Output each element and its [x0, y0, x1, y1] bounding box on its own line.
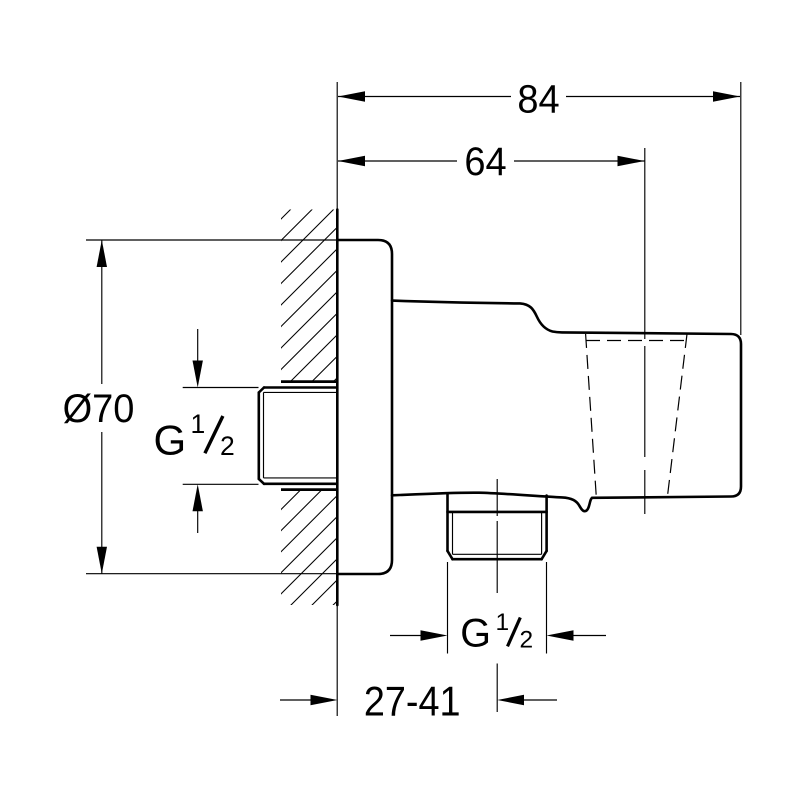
- outlet G1/2 dim left arrowhead: [421, 630, 448, 640]
- outlet G1/2 dim left line: [390, 635, 421, 637]
- svg-text:84: 84: [517, 78, 559, 122]
- dimension 64 text: [464, 140, 506, 184]
- wall line thick (wall edge): [336, 210, 339, 606]
- outlet center line: [496, 479, 498, 712]
- dimension 84 text: [517, 78, 559, 122]
- inlet G1/2 upper pointer line: [197, 329, 199, 362]
- inlet G1/2 label: [154, 409, 235, 464]
- svg-text:2: 2: [220, 431, 235, 461]
- dimension 27-41 text: [364, 679, 461, 725]
- dimension O70 text: [63, 387, 135, 431]
- dashed holder cone left: [586, 334, 597, 497]
- dimension 84 right extension line: [740, 82, 742, 335]
- holder center line (64 extension): [644, 148, 646, 514]
- svg-text:27-41: 27-41: [364, 679, 461, 725]
- svg-text:G: G: [154, 417, 187, 464]
- inlet G1/2 upper extension: [183, 387, 259, 389]
- body and holder outline: [392, 301, 741, 512]
- dimension 84 left arrowhead: [338, 91, 365, 101]
- dimension 84 line: [338, 96, 740, 98]
- wall hole top edge: [281, 380, 337, 383]
- svg-text:64: 64: [464, 140, 506, 184]
- dimension 27-41 left arrowhead: [311, 695, 338, 705]
- svg-text:1: 1: [191, 409, 206, 439]
- dimension 64 left arrowhead: [338, 156, 365, 166]
- svg-text:1: 1: [496, 609, 510, 636]
- outlet G1/2 dim right line: [573, 635, 606, 637]
- outlet G1/2 dim left extension: [447, 562, 449, 654]
- dashed holder cone top: [586, 340, 687, 342]
- svg-text:2: 2: [520, 627, 534, 654]
- dimension O70 line: [101, 240, 103, 574]
- dimension O70 top arrowhead: [97, 240, 107, 267]
- outlet thread G1/2: [448, 494, 547, 560]
- wall hatch upper: [0, 180, 535, 650]
- inlet G1/2 lower extension: [183, 483, 259, 485]
- dimension 27-41 line left: [280, 699, 311, 701]
- svg-text:G: G: [460, 612, 491, 656]
- dimension 64 right arrowhead: [618, 156, 645, 166]
- wall line lower thin: [336, 605, 338, 716]
- dimension 84 right arrowhead: [713, 91, 740, 101]
- dimension 27-41 line right: [524, 699, 557, 701]
- dimension O70 extension top: [86, 239, 337, 241]
- dimension O70 bottom arrowhead: [97, 547, 107, 574]
- inlet G1/2 lower pointer line: [197, 511, 199, 533]
- dimension 64 line: [338, 160, 645, 162]
- dimension O70 extension bottom: [86, 573, 337, 575]
- inlet G1/2 lower arrowhead: [193, 484, 203, 511]
- wall hatch lower: [141, 180, 759, 650]
- svg-text:Ø70: Ø70: [63, 387, 135, 431]
- dashed holder cone right: [668, 334, 688, 496]
- outlet G1/2 dim right arrowhead: [547, 630, 574, 640]
- outlet G1/2 label: [460, 609, 533, 656]
- inlet thread G1/2: [259, 388, 337, 484]
- dimension 27-41 right arrowhead: [497, 695, 524, 705]
- outlet G1/2 dim right extension: [546, 562, 548, 654]
- inlet G1/2 upper arrowhead: [193, 361, 203, 388]
- wall line upper thin: [336, 82, 338, 210]
- escutcheon plate: [337, 240, 392, 574]
- wall hole bottom edge: [281, 488, 337, 491]
